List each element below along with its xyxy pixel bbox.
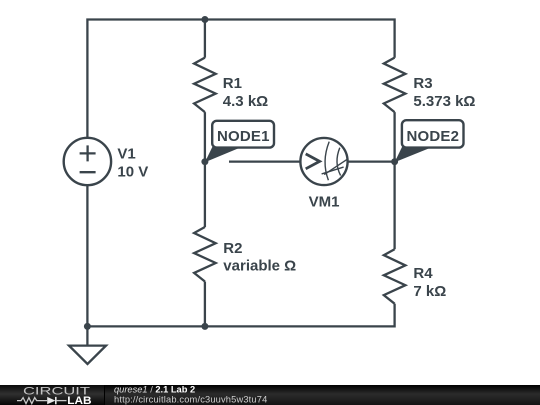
svg-text:http://circuitlab.com/c3uuvh5w: http://circuitlab.com/c3uuvh5w3tu74 [114, 395, 267, 405]
svg-text:5.373 kΩ: 5.373 kΩ [413, 93, 475, 110]
ground [69, 326, 106, 364]
footer bar background [0, 385, 540, 405]
svg-text:NODE1: NODE1 [217, 128, 270, 145]
svg-text:10 V: 10 V [117, 164, 148, 181]
svg-text:R2: R2 [223, 240, 242, 257]
node junction dot NODE2 [391, 158, 398, 165]
label R2 [223, 240, 242, 257]
CircuitLab logo resistor zigzag [17, 398, 47, 404]
node junction dot top (middle branch / top rail) [201, 16, 208, 23]
svg-text:R4: R4 [413, 265, 433, 282]
resistor R3 [384, 58, 406, 113]
svg-text:qurese1 / 2.1 Lab 2: qurese1 / 2.1 Lab 2 [114, 385, 195, 395]
node NODE1 callout [205, 121, 274, 163]
svg-text:variable Ω: variable Ω [223, 258, 296, 275]
svg-text:R1: R1 [223, 75, 242, 92]
resistor R4 [384, 249, 406, 304]
node junction dot NODE1 [201, 158, 208, 165]
svg-text:7 kΩ: 7 kΩ [413, 283, 446, 300]
resistor R1 [194, 58, 216, 113]
label R1 [223, 75, 242, 92]
label VM1 [309, 193, 340, 210]
wire: left rail upper + top rail + right rail upper [87, 20, 394, 138]
value label 5.373 kOhm [413, 93, 475, 110]
wire: middle branch between R1 and R2 [204, 112, 206, 227]
wire: left rail lower + bottom rail + right rail lower [87, 185, 394, 326]
node junction dot bottom-left (ground) [84, 323, 91, 330]
voltage source V1 [64, 138, 111, 185]
label R3 [413, 75, 432, 92]
footer url line [114, 395, 267, 405]
value label 10 V [117, 164, 148, 181]
CircuitLab logo text CIRCUIT [23, 386, 90, 398]
svg-text:R3: R3 [413, 75, 432, 92]
resistor R2 [194, 227, 216, 282]
value label 7 kOhm [413, 283, 446, 300]
CircuitLab logo text LAB [67, 395, 91, 405]
footer title line: qurese1 / 2.1 Lab 2 [114, 385, 195, 395]
node junction dot bottom-middle [201, 323, 208, 330]
label V1 [117, 146, 135, 163]
svg-text:NODE2: NODE2 [407, 128, 460, 145]
svg-text:VM1: VM1 [309, 193, 340, 210]
wire: NODE1 to voltmeter left terminal [229, 160, 300, 162]
svg-text:V1: V1 [117, 146, 135, 163]
svg-text:4.3 kΩ: 4.3 kΩ [223, 93, 268, 110]
svg-text:LAB: LAB [67, 395, 91, 405]
value label 4.3 kOhm [223, 93, 268, 110]
CircuitLab logo diode [47, 397, 66, 404]
wire: voltmeter right terminal to NODE2 [348, 160, 395, 162]
value label variable Ohm [223, 258, 296, 275]
voltmeter VM1 [300, 138, 347, 185]
node NODE2 callout [395, 120, 464, 162]
wire: middle branch top stub [204, 20, 206, 58]
label R4 [413, 265, 433, 282]
wire: right branch between R3 and R4 [393, 112, 395, 249]
wire: middle branch bottom stub [204, 282, 206, 327]
